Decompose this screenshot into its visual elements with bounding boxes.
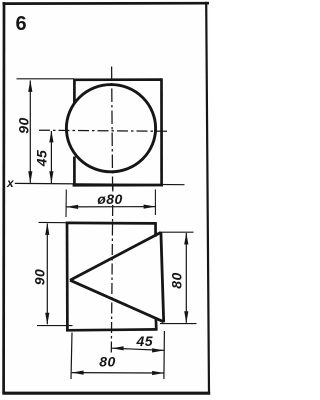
svg-text:90: 90 [32, 269, 48, 286]
dimension 80 (bottom) [72, 354, 165, 376]
svg-text:6: 6 [16, 13, 27, 35]
triangle (cone front view) [70, 232, 164, 322]
bottom view square (cylinder front outline) [66, 222, 158, 331]
extension line for 80 (bottom left) [71, 333, 72, 380]
svg-text:90: 90 [16, 117, 32, 134]
vertical centerline of top view [112, 67, 113, 191]
vertical centerline of bottom view [112, 186, 114, 192]
extension line for 45 and 80 (bottom right) [163, 331, 166, 379]
extension lines for 90 (bottom) [39, 221, 68, 223]
frame border [3, 2, 211, 395]
dimension Ø80 (between views) [66, 190, 156, 218]
svg-text:45: 45 [136, 333, 154, 349]
extension line for 90 (top) [17, 78, 75, 80]
svg-text:45: 45 [34, 150, 50, 168]
svg-text:80: 80 [168, 272, 184, 289]
svg-text:ø80: ø80 [97, 191, 123, 207]
extension lines for 80 (right) [162, 231, 194, 233]
dimension 90 (top view, left) [16, 80, 33, 183]
dimension 90 (bottom view, left) [32, 223, 50, 325]
dimension 45 (top view, left) [34, 130, 54, 183]
dimension 45 (bottom) [112, 333, 165, 353]
dimension 80 (bottom view, right) [168, 233, 188, 324]
x axis line [15, 183, 185, 184]
horizontal centerline of top view [39, 130, 170, 131]
top view square (prism outline) [73, 78, 163, 186]
svg-text:80: 80 [99, 354, 116, 370]
svg-text:x: x [6, 176, 15, 190]
top view circle (cylinder, Ø80) [66, 85, 155, 172]
